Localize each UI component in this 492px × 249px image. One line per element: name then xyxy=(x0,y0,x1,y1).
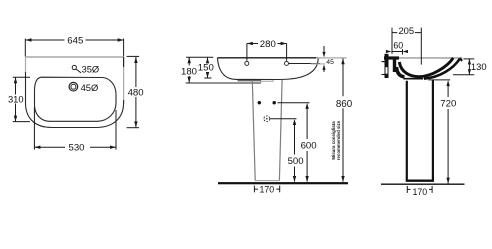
dim 480 extension lines xyxy=(127,55,140,57)
dim 645 line xyxy=(26,39,124,41)
pedestal side right edge xyxy=(432,80,434,181)
arrows 45 xyxy=(322,52,325,58)
arrows 60 (outside) xyxy=(386,50,392,53)
dim 60 line xyxy=(391,51,402,53)
dim 280 ticks xyxy=(246,44,248,61)
leader line 35 xyxy=(76,69,81,73)
tap hole 35 xyxy=(72,65,76,69)
bowl bottom gray fill xyxy=(411,75,417,77)
fixing hole dots xyxy=(258,101,261,104)
dim 180/150 top extension xyxy=(186,56,213,58)
arrows 280 xyxy=(247,42,253,45)
arrows 600 xyxy=(305,103,308,109)
dim text 480 xyxy=(127,87,145,97)
dim text 645 xyxy=(66,35,86,45)
drain dashed circle xyxy=(264,116,270,122)
svg-text:35Ø: 35Ø xyxy=(82,64,100,75)
svg-text:130: 130 xyxy=(471,61,487,72)
dim 280 line xyxy=(247,43,287,45)
arrows 310 xyxy=(14,77,17,83)
basin outer outline lower curve xyxy=(26,72,124,128)
back wall section xyxy=(385,54,389,78)
arrows 645 xyxy=(26,38,32,41)
tap hole right xyxy=(285,61,289,65)
dim 45 gray extensions xyxy=(316,57,347,59)
svg-text:310: 310 xyxy=(8,93,24,104)
dim 205 line xyxy=(392,32,421,34)
under-basin line xyxy=(238,80,262,82)
dim 480 line xyxy=(135,57,137,127)
basin right edge upper (black then gray) xyxy=(123,57,125,67)
svg-text:480: 480 xyxy=(128,88,144,99)
dim 170 right ticks xyxy=(406,186,408,193)
dim 530 line xyxy=(34,146,116,148)
dim 60 right tick xyxy=(402,49,404,54)
arrows 150 xyxy=(206,57,209,63)
pedestal left edge xyxy=(252,80,255,181)
basin outline front xyxy=(217,58,318,80)
svg-text:645: 645 xyxy=(67,35,83,46)
dim 150 line xyxy=(207,57,209,78)
tap hole left xyxy=(245,61,249,65)
floor line middle (thick) xyxy=(218,182,348,184)
dim 310 line xyxy=(15,77,17,121)
rim top surface (gray) xyxy=(394,57,462,59)
dim 205 right tick/extension xyxy=(420,28,422,65)
drain boss bottom xyxy=(403,78,423,80)
arrows 480 xyxy=(134,57,137,63)
svg-text:60: 60 xyxy=(393,40,403,50)
svg-text:500: 500 xyxy=(288,156,304,167)
dim 130 line xyxy=(468,59,470,75)
svg-text:720: 720 xyxy=(440,99,456,110)
apron bottom edge xyxy=(186,82,261,84)
dim 720 extension xyxy=(428,79,450,81)
pedestal side left edge xyxy=(406,81,408,181)
back wall slot (white) xyxy=(386,67,388,74)
arrows 530 xyxy=(34,146,40,149)
svg-text:150: 150 xyxy=(198,63,214,74)
dim 500 extension xyxy=(270,118,297,120)
svg-text:170: 170 xyxy=(259,185,274,195)
basin top edge xyxy=(217,57,318,59)
arrows 180 xyxy=(188,57,191,63)
pedestal side bottom xyxy=(406,179,434,181)
dim 720 line xyxy=(447,84,449,183)
leader from right hole xyxy=(289,63,320,65)
basin left edge upper (gray) xyxy=(25,57,27,73)
svg-text:180: 180 xyxy=(181,66,197,77)
dim 500 line xyxy=(294,123,296,182)
back wall ticks xyxy=(382,62,385,75)
svg-text:170: 170 xyxy=(412,187,427,197)
dim 600 extension xyxy=(278,102,310,104)
svg-text:530: 530 xyxy=(68,143,84,154)
inner basin outline xyxy=(35,77,117,121)
bowl bottom left xyxy=(397,67,405,77)
floor line right (thin) xyxy=(381,183,465,185)
arrows 720 xyxy=(446,80,449,86)
dim text 530 xyxy=(66,143,86,153)
bowl inner surface curve xyxy=(399,58,453,77)
rim right end xyxy=(460,58,463,61)
svg-text:860: 860 xyxy=(336,99,353,110)
svg-text:280: 280 xyxy=(260,39,276,50)
arrows 500 xyxy=(293,119,296,125)
drain hole 45 xyxy=(69,82,78,91)
dim 170 ticks xyxy=(253,186,255,193)
dim 600 line xyxy=(306,106,308,182)
dim 645 extension lines xyxy=(24,39,26,57)
step joint (gray) xyxy=(261,80,273,83)
arrows 860 xyxy=(341,58,344,64)
dim 180 line xyxy=(188,57,190,83)
dim 530 extension lines xyxy=(33,107,35,150)
arrows 130 xyxy=(468,59,471,65)
svg-text:205: 205 xyxy=(398,25,414,36)
inner back wall xyxy=(393,59,396,72)
dim 130 extensions xyxy=(464,58,475,60)
rim back bar xyxy=(384,56,399,59)
svg-text:recommended size: recommended size xyxy=(336,120,341,160)
bowl outer surface curve xyxy=(424,59,460,79)
dim 150 bottom tick xyxy=(204,77,211,79)
basin top edge (gray) xyxy=(26,56,124,58)
svg-text:600: 600 xyxy=(301,140,317,151)
dim 310 extension lines xyxy=(13,76,30,78)
dim 860 line xyxy=(342,58,344,181)
svg-text:45: 45 xyxy=(326,59,334,66)
dim 205 left tick xyxy=(391,28,393,54)
pedestal right edge xyxy=(279,80,282,181)
pedestal bottom edge xyxy=(255,180,279,182)
dim 45 vertical + arrows area xyxy=(323,46,325,52)
svg-text:45Ø: 45Ø xyxy=(81,82,99,93)
